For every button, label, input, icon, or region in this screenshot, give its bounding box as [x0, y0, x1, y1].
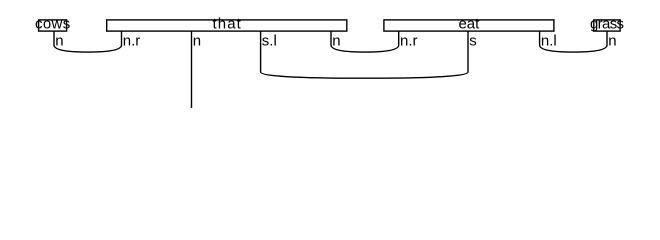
svg-text:n.l: n.l: [541, 32, 557, 49]
cup wire n (cows) to n.r (that): [54, 31, 122, 52]
svg-text:that: that: [212, 16, 241, 33]
svg-text:n: n: [332, 32, 340, 49]
svg-text:s: s: [469, 32, 477, 49]
svg-text:cows: cows: [35, 16, 71, 33]
word box eat: [384, 20, 554, 31]
word box grass: [594, 20, 620, 31]
big cup wire s.l (that) to s (eat): [261, 31, 468, 78]
svg-text:grass: grass: [590, 16, 624, 33]
svg-text:n: n: [608, 32, 616, 49]
word box that: [107, 20, 347, 31]
cup wire n (that) to n.r (eat): [331, 31, 399, 52]
svg-text:n.r: n.r: [400, 32, 418, 49]
svg-text:eat: eat: [458, 16, 480, 33]
svg-text:n: n: [193, 32, 201, 49]
straight wire n (that): [191, 31, 193, 108]
svg-text:s.l: s.l: [262, 32, 277, 49]
word box cows: [39, 20, 67, 31]
svg-text:n: n: [55, 32, 63, 49]
cup wire n.l (eat) to n (grass): [540, 31, 607, 52]
svg-text:n.r: n.r: [123, 32, 141, 49]
